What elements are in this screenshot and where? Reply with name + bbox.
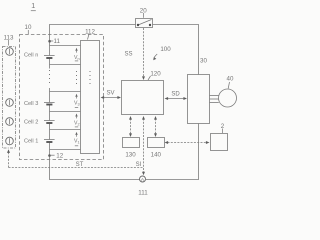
SI arrowheads <box>142 116 145 120</box>
switch blade <box>138 20 152 26</box>
V1 arrow <box>75 132 77 135</box>
140-2 arrowheads <box>165 141 169 144</box>
switch contact dot right <box>149 24 151 26</box>
112 inner dots <box>89 71 91 87</box>
comm box 140 <box>148 138 165 148</box>
cell Cn battery symbol <box>44 55 55 57</box>
svg-text:10: 10 <box>25 24 32 31</box>
temp sensor T-3 <box>6 99 14 107</box>
dashed link 120-140 <box>155 119 157 135</box>
cell monitor box 112 <box>81 41 100 154</box>
svg-text:SI: SI <box>136 162 142 168</box>
cell tap wire 1-bottom <box>50 149 81 151</box>
dashed link 120-130 <box>130 119 132 135</box>
svg-text:112: 112 <box>85 29 95 36</box>
node 11 dot <box>48 40 51 43</box>
svg-text:111: 111 <box>138 189 148 196</box>
svg-text:ST: ST <box>76 162 84 168</box>
cell tap wire 3-2 <box>50 111 81 113</box>
cell C3 battery symbol <box>44 102 55 104</box>
SI dashed line 120 to ammeter <box>143 119 145 174</box>
V2 arrow <box>75 114 77 117</box>
wire switch to inverter <box>153 25 199 75</box>
Vn arrow <box>75 48 77 51</box>
V3 arrow stem <box>76 96 78 99</box>
label leader 100 curved <box>154 54 158 59</box>
motor 40 <box>219 89 237 107</box>
svg-text:Cell n: Cell n <box>24 53 38 59</box>
120-130 arrowheads <box>129 116 132 120</box>
SS arrowhead down into 120 <box>142 76 145 80</box>
temp sensor T-1 <box>6 137 14 145</box>
wire inverter bottom down <box>146 124 199 180</box>
Vn minus <box>75 60 78 62</box>
SS dashed control line from switch <box>143 28 145 77</box>
switch contact dot left <box>137 24 139 26</box>
temperature sensor box 113 (dash-dot) <box>3 47 16 149</box>
label leader 113 <box>8 40 10 46</box>
battery column dots <box>49 70 51 86</box>
label 12 dash <box>51 154 55 156</box>
load box 2 <box>211 134 228 151</box>
memory box 130 <box>123 138 140 148</box>
cell C2 battery symbol <box>44 120 55 122</box>
V column dots <box>76 71 78 87</box>
label leader 40 <box>228 82 229 89</box>
svg-text:40: 40 <box>227 76 234 83</box>
node 12 dot <box>48 154 51 157</box>
svg-text:12: 12 <box>56 152 63 159</box>
underline 1 <box>31 10 36 12</box>
cell tap wire n-top <box>50 45 81 47</box>
svg-text:1: 1 <box>31 1 35 10</box>
cell tap wire n-bottom <box>50 64 81 66</box>
svg-text:140: 140 <box>151 152 162 159</box>
wire top from battery to switch <box>50 25 136 46</box>
V2 minus <box>75 126 78 128</box>
label leader 10 <box>27 30 29 34</box>
svg-text:11: 11 <box>54 38 61 45</box>
svg-text:Cell 2: Cell 2 <box>24 120 38 126</box>
120-140 arrowheads <box>154 116 157 120</box>
label 11 dash <box>50 40 53 42</box>
svg-text:120: 120 <box>150 71 161 78</box>
label leader 112 <box>88 34 90 40</box>
label leader 2 <box>222 129 224 134</box>
inverter box 30 <box>188 75 210 124</box>
svg-text:100: 100 <box>160 46 171 53</box>
dashed link 140-2 <box>168 142 208 144</box>
svg-text:2: 2 <box>221 123 225 130</box>
ST dashed line up to 113 <box>8 153 10 168</box>
V1 arrow stem <box>76 134 78 137</box>
svg-text:130: 130 <box>125 152 136 159</box>
wire bottom left to battery <box>50 150 140 180</box>
100 arrow <box>153 57 156 60</box>
svg-text:Cell 3: Cell 3 <box>24 101 38 107</box>
temp sensor T-2 <box>6 118 14 126</box>
svg-text:20: 20 <box>140 7 147 14</box>
ST arrowhead into 113 <box>7 149 10 153</box>
motor phase wires <box>210 95 219 97</box>
cell tap wire 3-top <box>50 91 81 93</box>
svg-text:SV: SV <box>106 91 114 97</box>
V2 arrow stem <box>76 115 78 118</box>
ST dashed line horizontal <box>9 167 144 169</box>
SV arrow line <box>103 97 120 99</box>
svg-text:SD: SD <box>171 92 180 98</box>
label leader 120 <box>148 76 151 80</box>
SD arrow line <box>167 98 186 100</box>
battery column segments <box>49 46 51 56</box>
svg-text:30: 30 <box>200 57 207 64</box>
temp sensor T-n <box>6 48 14 56</box>
cell tap wire 2-1 <box>50 129 81 131</box>
battery pack box 10 (dashed) <box>20 35 104 160</box>
cell C1 battery symbol <box>44 139 55 141</box>
current sensor 111 <box>140 176 146 182</box>
SD arrowheads <box>165 97 169 100</box>
svg-text:SS: SS <box>124 52 132 58</box>
switch 20 <box>136 19 153 28</box>
SV arrowheads <box>101 96 105 99</box>
V3 minus <box>75 107 78 109</box>
svg-text:Cell 1: Cell 1 <box>24 139 38 145</box>
label leader 20 <box>143 13 145 18</box>
BMS controller box 120 <box>122 81 164 115</box>
V3 arrow <box>75 94 77 97</box>
Vn arrow stem <box>76 50 78 53</box>
V1 minus <box>75 145 78 147</box>
svg-text:113: 113 <box>4 35 14 42</box>
